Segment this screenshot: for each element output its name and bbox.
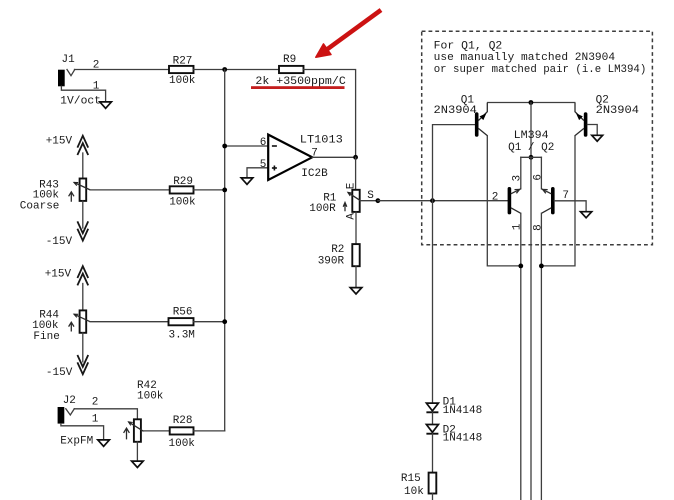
- wire D1 to D2: [432, 412, 434, 424]
- power -15V for R43: [46, 201, 88, 248]
- svg-text:-15V: -15V: [46, 236, 73, 248]
- svg-text:LM394: LM394: [514, 130, 549, 142]
- node S junction: [376, 198, 381, 203]
- svg-text:E: E: [346, 182, 358, 189]
- wire J1 pin1 to ground: [61, 86, 105, 102]
- svg-text:100R: 100R: [309, 203, 336, 215]
- svg-text:+15V: +15V: [45, 268, 72, 280]
- ground for J1: [100, 102, 112, 108]
- transistor LM394 B: [541, 189, 552, 214]
- wire LM394 B collector down: [540, 213, 542, 500]
- transistor Q2 2N3904: [575, 94, 639, 135]
- svg-text:-15V: -15V: [46, 367, 73, 379]
- svg-text:R9: R9: [283, 54, 296, 66]
- svg-text:For Q1, Q2: For Q1, Q2: [434, 40, 503, 52]
- resistor R29: [169, 176, 196, 208]
- potentiometer R42: [124, 380, 164, 442]
- wire R15 to bottom edge: [432, 494, 434, 500]
- red arrow annotation: [316, 10, 381, 57]
- wire LM394 A collector down: [520, 213, 522, 500]
- svg-text:1N4148: 1N4148: [443, 405, 483, 417]
- potentiometer R43: [20, 179, 90, 213]
- ground for pin 5: [241, 178, 253, 184]
- wire R1 bottom to R2: [355, 212, 357, 244]
- wire J1 pin2 to R27: [75, 69, 170, 71]
- diode D1 1N4148: [426, 396, 482, 417]
- ground for R42: [132, 461, 144, 467]
- wire R9 right to output junction: [304, 70, 356, 158]
- wire Q2 base to ground: [587, 125, 597, 136]
- resistor R9: [255, 54, 346, 88]
- wire LM394 pin7 base to ground: [554, 201, 586, 212]
- wire top emitter rail: [488, 102, 575, 104]
- svg-text:390R: 390R: [318, 255, 345, 267]
- wire R29 to main vertical: [194, 189, 225, 191]
- node junction top rail: [529, 100, 534, 105]
- wire R44 wiper to R56: [90, 321, 168, 323]
- svg-text:1: 1: [92, 413, 99, 425]
- svg-text:Q1 / Q2: Q1 / Q2: [508, 142, 554, 154]
- svg-text:1: 1: [512, 223, 524, 230]
- node junction bottom rail right: [539, 264, 544, 269]
- svg-text:2: 2: [492, 192, 499, 204]
- wire R1 wiper to S node: [360, 200, 378, 202]
- power +15V for R44: [45, 266, 88, 310]
- svg-text:R29: R29: [173, 176, 193, 188]
- transistor Q1 2N3904: [434, 94, 488, 135]
- resistor R15: [401, 473, 436, 498]
- wire emitter tee: [521, 157, 542, 189]
- resistor R27: [169, 55, 196, 87]
- wire D2 to R15: [432, 434, 434, 473]
- svg-text:1N4148: 1N4148: [443, 433, 483, 445]
- ground for R2: [350, 288, 362, 294]
- diode D2 1N4148: [426, 424, 482, 444]
- ground for Q2 base: [592, 135, 603, 141]
- svg-text:100k: 100k: [169, 438, 196, 450]
- resistor R28: [169, 415, 196, 450]
- wire center stub down: [530, 103, 532, 158]
- wire R27 to R9: [194, 69, 280, 71]
- node junction output: [353, 155, 358, 160]
- ground for LM394 pin7: [581, 212, 592, 218]
- resistor R56: [169, 306, 195, 341]
- svg-text:LT1013: LT1013: [300, 135, 343, 147]
- wire R2 to ground: [355, 266, 357, 287]
- wire J2 pin1 to ground: [61, 424, 104, 440]
- node junction R27/main vertical: [222, 67, 227, 72]
- svg-text:R15: R15: [401, 473, 421, 485]
- svg-text:100k: 100k: [169, 196, 196, 208]
- wire center line to bottom edge: [530, 157, 532, 500]
- svg-text:R28: R28: [173, 415, 193, 427]
- wire R56 to main vertical: [194, 321, 225, 323]
- svg-text:Fine: Fine: [33, 331, 59, 343]
- svg-text:6: 6: [532, 174, 544, 181]
- wire R43 wiper to R29: [90, 189, 170, 191]
- jack J2: [58, 395, 76, 423]
- svg-text:2N3904: 2N3904: [434, 105, 478, 117]
- node junction common emitters: [529, 155, 534, 160]
- node junction R56: [222, 319, 227, 324]
- svg-text:5: 5: [260, 159, 267, 171]
- svg-text:or super matched pair (i.e LM3: or super matched pair (i.e LM394): [434, 64, 647, 76]
- svg-text:10k: 10k: [404, 486, 424, 498]
- svg-text:IC2B: IC2B: [301, 168, 328, 180]
- svg-text:Coarse: Coarse: [20, 200, 60, 212]
- svg-text:use manually matched 2N3904: use manually matched 2N3904: [434, 52, 616, 64]
- wire J2 pin2 to R42 top: [74, 409, 137, 420]
- node junction S/diode chain: [430, 198, 435, 203]
- wire S node down to D1: [432, 201, 434, 403]
- wire output to R1 top: [355, 157, 357, 190]
- power +15V for R43: [46, 136, 88, 179]
- resistor R2: [318, 244, 360, 268]
- potentiometer R44: [32, 309, 90, 343]
- dashed annotation box: [422, 31, 653, 245]
- svg-text:J2: J2: [63, 395, 76, 407]
- op-amp U IC2B LT1013: [268, 135, 343, 181]
- wire S node to LM394 pin2: [378, 200, 508, 202]
- svg-text:R2: R2: [331, 244, 344, 256]
- wire Q2 collector to bottom rail: [541, 136, 575, 266]
- svg-text:J1: J1: [62, 54, 76, 66]
- jack J1: [58, 54, 75, 86]
- ground for J2: [98, 440, 110, 446]
- wire R42 wiper to R28: [144, 430, 170, 432]
- svg-text:8: 8: [532, 224, 544, 231]
- wire S node up to Q1 base: [433, 125, 476, 201]
- svg-text:6: 6: [260, 137, 267, 149]
- svg-text:1V/oct: 1V/oct: [60, 96, 101, 108]
- svg-text:+15V: +15V: [46, 136, 73, 148]
- svg-text:2: 2: [92, 397, 99, 409]
- red underline annotation: [251, 86, 345, 89]
- node junction pin6: [222, 144, 227, 149]
- svg-text:2N3904: 2N3904: [596, 105, 640, 117]
- wire Q1 collector to bottom rail: [487, 136, 521, 266]
- wire R28 to main vertical: [194, 430, 225, 432]
- node junction R29: [222, 188, 227, 193]
- wire to op-amp pin 6: [225, 145, 269, 147]
- wire R42 bottom to ground: [136, 442, 138, 461]
- svg-text:ExpFM: ExpFM: [60, 435, 93, 447]
- node junction bottom rail left: [518, 264, 523, 269]
- wire op-amp pin 5 to ground: [247, 168, 268, 178]
- wire op-amp output: [312, 156, 355, 158]
- svg-text:100k: 100k: [137, 391, 164, 403]
- transistor LM394 A: [509, 189, 520, 214]
- svg-text:R27: R27: [173, 55, 193, 67]
- svg-text:3.3M: 3.3M: [169, 330, 195, 342]
- wire main vertical bus: [224, 70, 226, 431]
- power -15V for R44: [46, 333, 88, 379]
- trimmer R1: [309, 190, 360, 215]
- svg-text:100k: 100k: [169, 75, 196, 87]
- svg-text:3: 3: [512, 175, 524, 182]
- svg-text:R56: R56: [173, 306, 193, 318]
